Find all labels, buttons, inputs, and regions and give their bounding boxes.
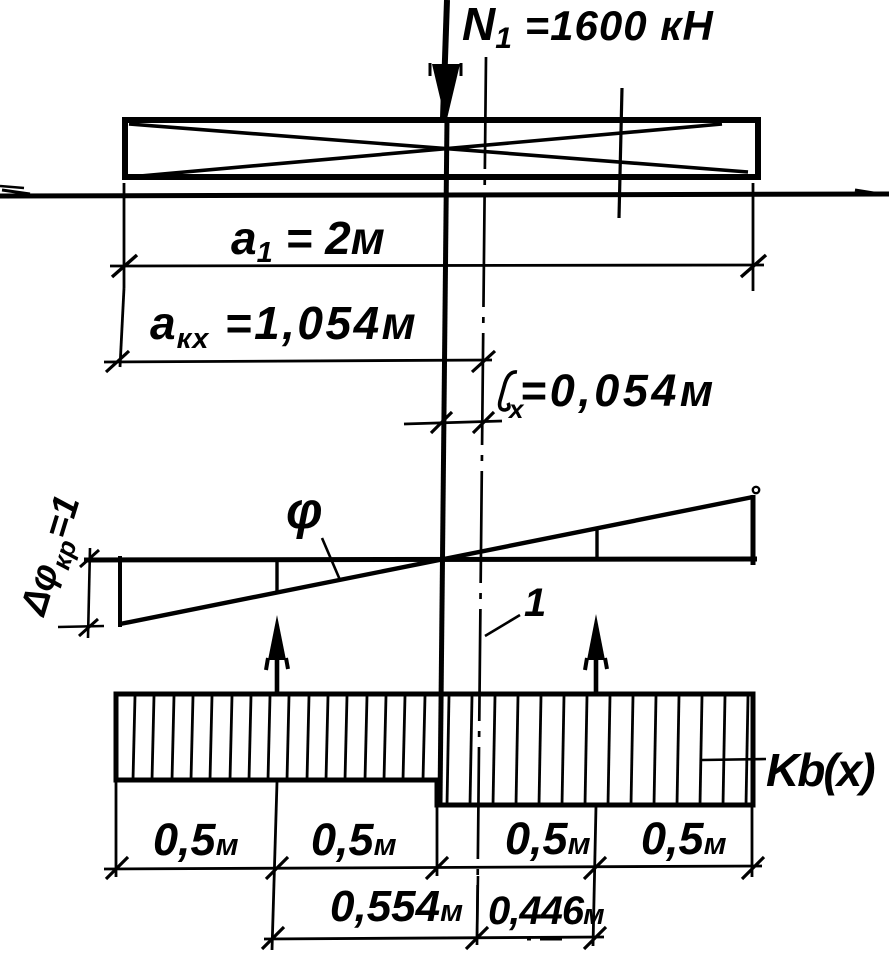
label N1 = 1600 kN xyxy=(462,0,715,55)
dimension row 0.5m x4 xyxy=(104,813,764,879)
slab diagonal 2 xyxy=(129,124,722,177)
Kb diagram outline xyxy=(116,694,753,805)
slab diagonal 1 xyxy=(129,124,748,172)
dimension lx = 0.054m xyxy=(404,365,717,433)
svg-text:0,446м: 0,446м xyxy=(488,889,604,933)
dimension a1 = 2m xyxy=(110,183,766,291)
svg-text:=0,054м: =0,054м xyxy=(520,365,717,416)
svg-text:φ: φ xyxy=(286,482,323,540)
svg-text:0,554м: 0,554м xyxy=(330,882,463,931)
label 1 with leader xyxy=(485,581,546,636)
dimension akx = 1.054m xyxy=(104,288,495,372)
svg-text:0,5м: 0,5м xyxy=(153,814,239,865)
svg-text:0,5м: 0,5м xyxy=(505,813,591,864)
svg-text:1: 1 xyxy=(524,581,546,625)
reaction arrow right xyxy=(585,614,607,694)
phi label xyxy=(286,482,340,580)
reaction arrow left xyxy=(266,615,288,694)
Kb hatching xyxy=(133,696,748,805)
Kb(x) label with leader xyxy=(702,744,874,796)
bottom extension lines xyxy=(116,782,752,950)
section tick at x=620 xyxy=(619,88,622,218)
svg-text:Kb(x): Kb(x) xyxy=(766,744,874,796)
foundation slab outline xyxy=(125,120,758,177)
svg-text:0,5м: 0,5м xyxy=(311,814,397,865)
svg-text:Δφкр=1: Δφкр=1 xyxy=(12,491,95,624)
svg-text:aкх =1,054м: aкх =1,054м xyxy=(150,297,418,355)
delta phi kp = 1 dimension xyxy=(12,491,104,638)
load axis line xyxy=(440,118,447,803)
svg-text:0,5м: 0,5м xyxy=(641,813,727,864)
dimension row 0.554m / 0.446m xyxy=(262,876,606,949)
load arrow N1 xyxy=(430,0,461,123)
svg-text:a1 = 2м: a1 = 2м xyxy=(231,212,385,269)
svg-text:N1 =1600 кН: N1 =1600 кН xyxy=(462,0,715,55)
centerline dash-dot axis xyxy=(477,57,486,945)
ground line xyxy=(0,186,889,196)
influence line phi diagram xyxy=(84,487,759,627)
